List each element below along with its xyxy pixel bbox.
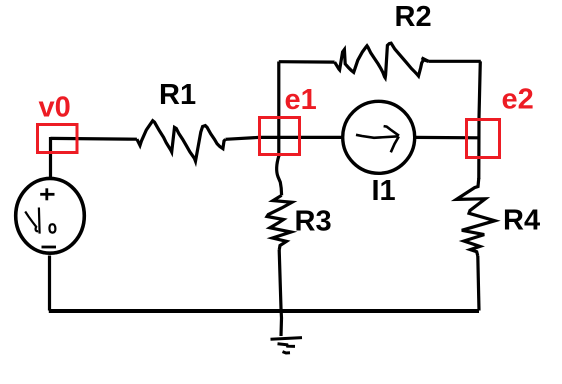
- wire R1 to I1 through e1: [226, 137, 344, 139]
- svg-text:I1: I1: [372, 175, 396, 207]
- wire e1 to R3: [277, 156, 282, 195]
- node e1 box: [260, 118, 300, 155]
- wire R2 exit barb: [422, 58, 429, 62]
- wire source to bottom: [48, 256, 51, 311]
- svg-text:e2: e2: [502, 84, 534, 116]
- wire R2 to right corner: [429, 60, 481, 63]
- resistor R2: [335, 43, 429, 78]
- svg-text:e1: e1: [285, 84, 317, 116]
- bottom bus wire: [49, 309, 479, 313]
- svg-text:R4: R4: [503, 205, 540, 237]
- wire v0 box down to source: [49, 137, 52, 178]
- wire R3 to ground: [279, 250, 281, 336]
- wire v0 to R1: [51, 137, 137, 141]
- resistor R4: [456, 178, 495, 256]
- wire R4 to bottom: [478, 256, 479, 311]
- wire right vertical through e2: [479, 61, 481, 179]
- svg-text:R2: R2: [395, 1, 432, 33]
- voltage source Va: [16, 178, 85, 253]
- wire e1 vertical: [277, 62, 280, 158]
- svg-text:R3: R3: [295, 206, 332, 238]
- node e2 box: [467, 120, 500, 158]
- current source I1: [343, 101, 415, 173]
- resistor R1: [137, 121, 226, 162]
- wire I1 to e2: [414, 136, 478, 140]
- ground: [271, 338, 303, 353]
- resistor R3: [267, 195, 292, 250]
- wire top left to R2: [279, 60, 335, 64]
- node v0 box: [38, 125, 78, 153]
- svg-text:v0: v0: [39, 92, 71, 124]
- svg-text:R1: R1: [159, 79, 196, 111]
